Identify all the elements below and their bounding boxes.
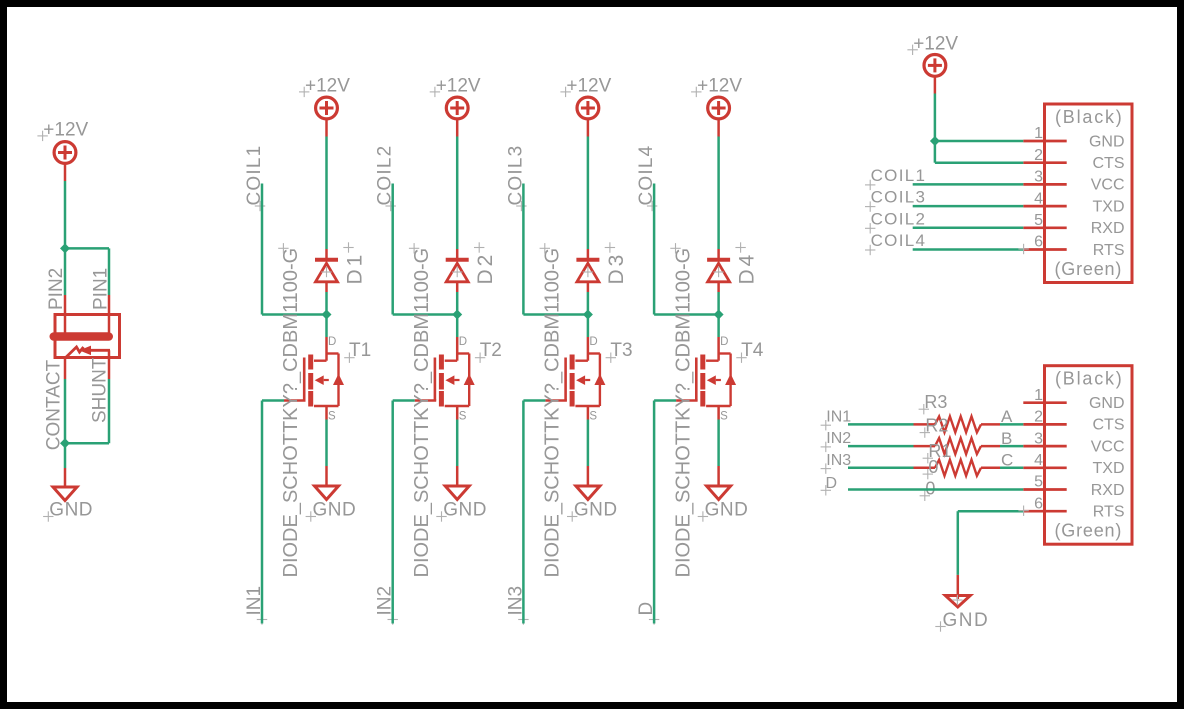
ground GND (column 1): [306, 466, 357, 522]
svg-text:B: B: [1001, 429, 1012, 448]
svg-text:DIODE_SCHOTTKY?_CDBM1100-G: DIODE_SCHOTTKY?_CDBM1100-G: [411, 248, 433, 578]
wire: [456, 420, 459, 467]
svg-text:GND: GND: [705, 500, 749, 521]
resistor name R1: [923, 441, 952, 464]
supply +12V (column 2): [430, 76, 481, 119]
connector J1 (Black/Green): [1023, 104, 1132, 283]
svg-text:CTS: CTS: [1093, 417, 1125, 434]
svg-text:1: 1: [1034, 125, 1043, 142]
relay/contactor body: [50, 315, 120, 358]
svg-text:D: D: [720, 336, 728, 348]
svg-text:DIODE_SCHOTTKY?_CDBM1100-G: DIODE_SCHOTTKY?_CDBM1100-G: [672, 248, 694, 578]
wire: [262, 184, 327, 315]
wire: [587, 420, 590, 467]
wire: [262, 401, 284, 624]
svg-text:(Black): (Black): [1055, 369, 1124, 389]
wire: [913, 244, 1029, 254]
svg-text:(Black): (Black): [1055, 107, 1124, 127]
wire: [717, 315, 720, 338]
svg-text:C: C: [1001, 451, 1013, 470]
net label D: [821, 475, 837, 495]
svg-text:SHUNT: SHUNT: [89, 357, 110, 423]
supply +12V (top right): [907, 34, 958, 77]
svg-text:PIN2: PIN2: [46, 268, 67, 310]
svg-text:VCC: VCC: [1091, 438, 1125, 455]
supply +12V (column 3): [560, 76, 611, 119]
net label COIL1: [865, 166, 926, 190]
svg-text:D4: D4: [736, 252, 759, 285]
svg-text:D2: D2: [474, 252, 497, 285]
svg-text:GND: GND: [1089, 133, 1125, 150]
net label COIL4: [636, 145, 657, 212]
svg-text:IN3: IN3: [826, 452, 851, 469]
svg-text:4: 4: [1034, 452, 1043, 469]
resistor R1: [914, 460, 1001, 476]
svg-text:6: 6: [1034, 495, 1043, 512]
wire: [848, 488, 1023, 491]
svg-text:+12V: +12V: [43, 120, 88, 141]
svg-text:A: A: [1001, 407, 1013, 426]
svg-text:CONTACT: CONTACT: [44, 359, 65, 450]
node junction: [322, 310, 332, 320]
supply +12V (column 1): [299, 76, 350, 119]
svg-text:D: D: [328, 336, 336, 348]
wire: [654, 184, 719, 315]
resistor R2: [914, 438, 1001, 454]
net label IN1: [821, 409, 852, 431]
svg-text:D: D: [826, 475, 838, 492]
svg-text:4: 4: [1034, 190, 1043, 207]
svg-text:IN1: IN1: [826, 409, 851, 426]
net label COIL3: [505, 145, 526, 212]
svg-text:PIN1: PIN1: [90, 268, 111, 310]
svg-text:COIL3: COIL3: [871, 188, 927, 207]
wire: [393, 184, 458, 315]
resistor name R3: [919, 392, 948, 415]
value label DIODE_SCHOTTKY?_CDBM1100-G (column 2): [409, 243, 433, 577]
svg-text:D: D: [459, 336, 467, 348]
transistor T1 (n-mosfet): [284, 336, 371, 422]
svg-text:GND: GND: [443, 500, 487, 521]
svg-text:COIL4: COIL4: [871, 231, 927, 250]
svg-text:5: 5: [1034, 212, 1043, 229]
wire: [934, 77, 937, 141]
node junction: [452, 310, 462, 320]
wire: [325, 119, 328, 249]
svg-text:(Green): (Green): [1055, 521, 1123, 541]
wire: [64, 164, 67, 249]
wire: [717, 119, 720, 249]
wire: [65, 379, 109, 443]
svg-text:TXD: TXD: [1093, 198, 1125, 215]
wire: [717, 292, 720, 315]
wire: [654, 401, 676, 624]
svg-text:GND: GND: [49, 500, 93, 521]
connector J2 (Black/Green): [1023, 366, 1132, 545]
svg-text:+12V: +12V: [305, 76, 350, 97]
net label COIL3: [865, 188, 926, 212]
svg-text:S: S: [328, 410, 336, 422]
wire: [587, 292, 590, 315]
svg-text:RXD: RXD: [1091, 220, 1125, 237]
wire: [587, 119, 590, 249]
resistor name R2: [920, 415, 949, 438]
svg-text:3: 3: [1034, 430, 1043, 447]
net label D: [636, 602, 659, 625]
wire: [587, 315, 590, 338]
wire: [913, 227, 1024, 230]
transistor T2 (n-mosfet): [415, 336, 502, 422]
pin PIN1: [90, 268, 111, 333]
node junction: [583, 310, 593, 320]
wire: [325, 420, 328, 467]
transistor T3 (n-mosfet): [545, 336, 632, 422]
svg-text:S: S: [720, 410, 728, 422]
ground GND (column 4): [698, 466, 749, 522]
net label COIL4: [865, 231, 926, 255]
wire: [848, 445, 1023, 448]
pin PIN2: [46, 268, 67, 333]
ground GND (column 3): [567, 466, 618, 522]
diode D1 (schottky): [315, 242, 367, 292]
wire: [456, 315, 459, 338]
svg-text:VCC: VCC: [1091, 177, 1125, 194]
svg-text:+12V: +12V: [697, 76, 742, 97]
svg-text:GND: GND: [313, 500, 357, 521]
svg-text:GND: GND: [574, 500, 618, 521]
svg-text:DIODE_SCHOTTKY?_CDBM1100-G: DIODE_SCHOTTKY?_CDBM1100-G: [280, 248, 302, 578]
svg-text:CTS: CTS: [1093, 155, 1125, 172]
svg-text:IN2: IN2: [826, 430, 851, 447]
net label COIL2: [865, 209, 926, 233]
svg-text:COIL1: COIL1: [871, 166, 927, 185]
svg-text:2: 2: [1034, 409, 1043, 426]
node junction: [714, 310, 724, 320]
svg-text:S: S: [589, 410, 597, 422]
net label COIL2: [375, 145, 396, 212]
node junction: [60, 438, 70, 448]
ground GND (bottom right): [935, 575, 989, 632]
diode D3 (schottky): [576, 242, 628, 292]
net label IN3: [821, 452, 852, 474]
wire: [717, 420, 720, 467]
wire: [393, 401, 415, 624]
value label DIODE_SCHOTTKY?_CDBM1100-G (column 1): [278, 243, 302, 577]
supply +12V (left): [37, 120, 88, 164]
svg-text:5: 5: [1034, 474, 1043, 491]
svg-text:COIL2: COIL2: [871, 209, 927, 228]
wire: [848, 467, 1023, 470]
value label DIODE_SCHOTTKY?_CDBM1100-G (column 4): [670, 243, 694, 577]
contact switch symbol: [65, 346, 110, 358]
wire: [325, 315, 328, 338]
supply +12V (column 4): [691, 76, 742, 119]
ground GND (column 2): [436, 466, 487, 522]
diode D2 (schottky): [446, 242, 498, 292]
node junction: [930, 136, 940, 146]
wire: [913, 183, 1024, 186]
svg-text:1: 1: [1034, 387, 1043, 404]
value label DIODE_SCHOTTKY?_CDBM1100-G (column 3): [540, 243, 564, 577]
wire: [523, 401, 545, 624]
svg-text:D3: D3: [605, 252, 628, 285]
wire: [935, 141, 1023, 163]
wire: [64, 443, 67, 468]
svg-text:RTS: RTS: [1093, 242, 1125, 259]
diode D4 (schottky): [707, 242, 759, 292]
resistor value 0: [920, 479, 936, 502]
svg-text:+12V: +12V: [436, 76, 481, 97]
wire: [913, 205, 1024, 208]
svg-text:+12V: +12V: [566, 76, 611, 97]
net label IN2: [821, 430, 852, 452]
svg-text:GND: GND: [1089, 395, 1125, 412]
wire: [325, 292, 328, 315]
svg-text:TXD: TXD: [1093, 460, 1125, 477]
svg-text:RTS: RTS: [1093, 504, 1125, 521]
svg-text:6: 6: [1034, 234, 1043, 251]
svg-text:+12V: +12V: [913, 34, 958, 55]
svg-text:(Green): (Green): [1055, 259, 1123, 279]
transistor T4 (n-mosfet): [676, 336, 764, 422]
wire: [958, 506, 1029, 575]
svg-text:D: D: [589, 336, 597, 348]
pin SHUNT: [89, 350, 110, 423]
wire: [456, 292, 459, 315]
resistor value 0: [923, 457, 939, 480]
net label IN1: [244, 586, 267, 625]
resistor R3: [914, 416, 1001, 432]
wire: [65, 248, 109, 295]
ground GND (left): [43, 468, 93, 522]
svg-text:GND: GND: [943, 610, 990, 631]
net label IN2: [375, 586, 398, 625]
node junction: [60, 243, 70, 253]
svg-text:DIODE_SCHOTTKY?_CDBM1100-G: DIODE_SCHOTTKY?_CDBM1100-G: [542, 248, 564, 578]
pin CONTACT: [44, 358, 66, 451]
svg-text:D1: D1: [344, 252, 367, 285]
net label IN3: [505, 586, 528, 625]
svg-text:S: S: [459, 410, 467, 422]
svg-text:RXD: RXD: [1091, 482, 1125, 499]
wire: [523, 184, 588, 315]
wire: [456, 119, 459, 249]
net label COIL1: [244, 145, 265, 212]
svg-text:2: 2: [1034, 147, 1043, 164]
wire: [848, 423, 1023, 426]
svg-text:3: 3: [1034, 169, 1043, 186]
